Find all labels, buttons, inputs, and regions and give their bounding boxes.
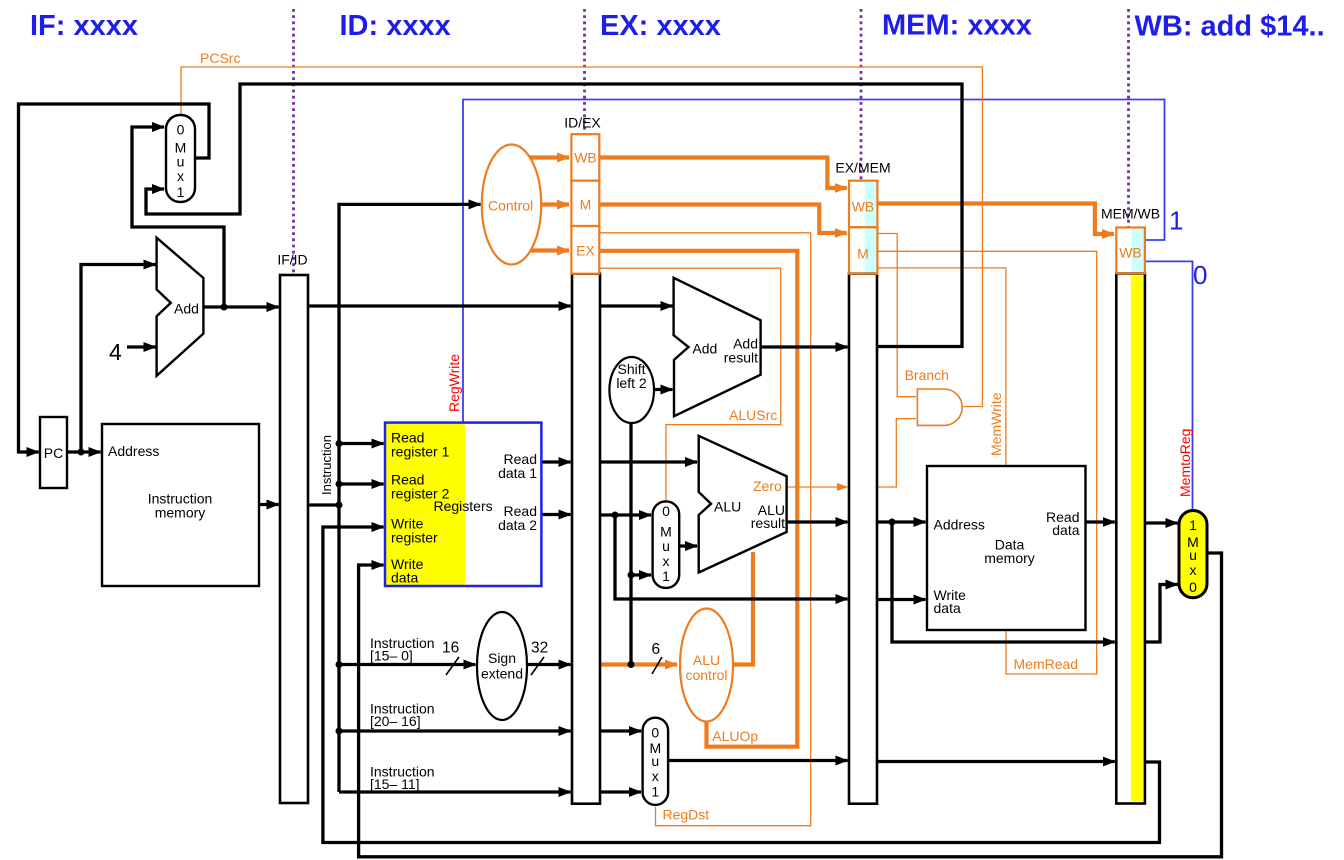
svg-text:1: 1 (662, 568, 670, 584)
svg-text:[15– 11]: [15– 11] (370, 776, 420, 792)
svg-text:register 1: register 1 (391, 444, 450, 460)
svg-text:1: 1 (177, 184, 185, 200)
svg-text:WB: add $14..: WB: add $14.. (1135, 10, 1325, 42)
svg-text:memory: memory (984, 550, 1035, 566)
svg-text:PCSrc: PCSrc (200, 50, 240, 66)
svg-text:x: x (663, 553, 670, 569)
svg-text:register: register (391, 530, 438, 546)
svg-text:Add: Add (174, 301, 199, 317)
svg-text:0: 0 (1193, 260, 1207, 290)
svg-text:4: 4 (109, 339, 122, 365)
svg-text:Zero: Zero (753, 478, 782, 494)
svg-text:1: 1 (1189, 517, 1197, 533)
svg-text:Branch: Branch (905, 367, 949, 383)
svg-text:PC: PC (44, 445, 63, 461)
svg-text:x: x (177, 168, 184, 184)
svg-text:6: 6 (652, 641, 661, 658)
svg-text:data 2: data 2 (498, 517, 537, 533)
svg-text:M: M (580, 197, 592, 213)
svg-text:Sign: Sign (488, 650, 516, 666)
svg-text:[15– 0]: [15– 0] (370, 648, 413, 664)
svg-text:left 2: left 2 (616, 375, 647, 391)
svg-text:result: result (751, 515, 785, 531)
svg-text:MemWrite: MemWrite (988, 392, 1004, 456)
svg-text:0: 0 (1189, 579, 1197, 595)
svg-text:extend: extend (481, 666, 523, 682)
svg-text:32: 32 (531, 640, 548, 657)
svg-text:RegWrite: RegWrite (446, 354, 462, 412)
svg-text:Address: Address (108, 443, 159, 459)
svg-text:ALU: ALU (714, 499, 741, 515)
svg-text:x: x (652, 768, 659, 784)
svg-text:1: 1 (651, 784, 659, 800)
svg-text:IF: xxxx: IF: xxxx (30, 10, 138, 42)
svg-text:data 1: data 1 (498, 465, 537, 481)
svg-text:EX: EX (576, 243, 595, 259)
svg-text:result: result (724, 349, 758, 365)
svg-text:ALUSrc: ALUSrc (729, 407, 777, 423)
svg-text:EX/MEM: EX/MEM (835, 160, 890, 176)
svg-text:data: data (934, 600, 961, 616)
svg-text:MEM/WB: MEM/WB (1101, 206, 1160, 222)
svg-text:RegDst: RegDst (663, 807, 710, 823)
svg-text:u: u (662, 538, 670, 554)
svg-text:[20– 16]: [20– 16] (370, 713, 421, 729)
svg-text:1: 1 (1169, 205, 1183, 235)
svg-text:0: 0 (662, 503, 670, 519)
svg-text:MemtoReg: MemtoReg (1177, 429, 1193, 497)
svg-text:ALU: ALU (693, 652, 720, 668)
svg-text:WB: WB (852, 199, 875, 215)
svg-text:ALUOp: ALUOp (712, 728, 758, 744)
svg-text:u: u (1189, 547, 1197, 563)
svg-text:0: 0 (177, 122, 185, 138)
svg-text:MemRead: MemRead (1014, 656, 1079, 672)
svg-text:control: control (685, 667, 727, 683)
svg-text:ID: xxxx: ID: xxxx (340, 10, 451, 42)
svg-text:WB: WB (574, 150, 597, 166)
svg-text:data: data (391, 570, 418, 586)
svg-text:EX: xxxx: EX: xxxx (600, 10, 721, 42)
svg-text:0: 0 (651, 724, 659, 740)
svg-text:16: 16 (442, 640, 459, 657)
svg-text:M: M (857, 246, 869, 262)
svg-text:x: x (1190, 562, 1197, 578)
svg-text:data: data (1052, 522, 1079, 538)
svg-text:Control: Control (488, 198, 533, 214)
svg-text:Registers: Registers (434, 498, 493, 514)
svg-text:ID/EX: ID/EX (564, 115, 601, 131)
svg-text:IF/ID: IF/ID (277, 252, 307, 268)
svg-text:memory: memory (155, 505, 206, 521)
svg-text:Add: Add (692, 341, 717, 357)
svg-text:WB: WB (1119, 244, 1142, 260)
svg-text:MEM: xxxx: MEM: xxxx (882, 10, 1032, 42)
svg-text:Address: Address (934, 517, 985, 533)
svg-text:Instruction: Instruction (319, 435, 334, 495)
svg-text:u: u (651, 753, 659, 769)
